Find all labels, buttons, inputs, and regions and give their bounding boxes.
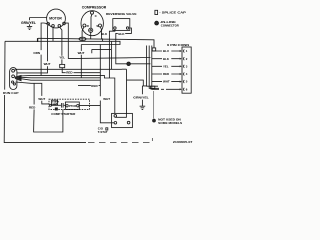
cable bundle (147, 46, 158, 87)
bus line 2 with U-turn to T-STAT (5, 41, 120, 44)
svg-text:GRN/YEL: GRN/YEL (21, 21, 36, 25)
svg-text:C: C (95, 14, 98, 18)
svg-text:S: S (96, 24, 98, 28)
svg-text:2: 2 (186, 57, 188, 61)
capacitor plates (62, 103, 64, 108)
terminal C (91, 11, 94, 14)
bus crossbar (102, 38, 104, 41)
ground (top) (27, 26, 32, 29)
ground (bottom) (140, 106, 146, 109)
pin brackets and numbers (183, 50, 186, 91)
bottom border dashed (88, 138, 152, 143)
in-line square below start cap (55, 108, 57, 110)
svg-text:CONNECTOR: CONNECTOR (161, 23, 180, 27)
svg-text:6: 6 (186, 87, 188, 91)
start cap terminal (50, 104, 52, 106)
left border wire (4, 41, 86, 142)
in-line connector dot (127, 62, 131, 66)
svg-text:MOTOR: MOTOR (49, 17, 62, 21)
terminal S (99, 24, 102, 27)
svg-text:R: R (87, 24, 90, 28)
wire PTCR out (79, 105, 100, 107)
terminal R (83, 24, 86, 27)
wire valve right BLK (116, 28, 132, 45)
svg-text:WHT: WHT (163, 80, 170, 84)
PTCR box (65, 102, 79, 109)
in-line connector oval on bus1 (79, 37, 86, 40)
pin rows (152, 51, 180, 89)
wedge wire L3 (19, 76, 100, 79)
motor terminals (47, 23, 50, 26)
wire RED drop to bottom loop (34, 83, 63, 132)
svg-text:5: 5 (186, 80, 188, 84)
svg-text:6 PIN CONN: 6 PIN CONN (167, 43, 190, 47)
wire stub y49.4 (92, 49, 111, 53)
wire R drop (82, 27, 84, 41)
svg-text:BLK: BLK (163, 57, 170, 61)
svg-text:GRN/YEL: GRN/YEL (133, 96, 149, 100)
wire motor drop 2 / WHT to run cap (17, 25, 48, 73)
wire motor terminal 1 jog / ORN drop (41, 23, 47, 76)
legend in-line connector (155, 21, 159, 25)
svg-text:COMPRESSOR: COMPRESSOR (82, 6, 107, 10)
wire overload drop (90, 32, 92, 39)
svg-text:PTCR: PTCR (69, 104, 76, 108)
wire BLK pair second vertical (111, 42, 113, 70)
wire RED short from YEL splice (62, 68, 100, 73)
svg-text:1: 1 (186, 49, 188, 53)
svg-text:RUN CAP: RUN CAP (3, 91, 19, 95)
svg-text:BLK: BLK (101, 32, 108, 36)
wedge wire L5 WHT to comp starter (16, 82, 50, 104)
svg-text:BLK: BLK (118, 32, 125, 36)
svg-text:RED: RED (91, 84, 98, 88)
svg-text:4: 4 (186, 72, 188, 76)
comp starter dashed box (49, 99, 90, 109)
splice cap YEL (60, 64, 65, 67)
svg-text:BLU: BLU (163, 49, 169, 53)
svg-text:WHT: WHT (44, 62, 51, 66)
wire motor terminal right to W1 (65, 23, 68, 59)
splice cap near C/O (106, 128, 108, 130)
svg-text:ORN: ORN (33, 51, 40, 55)
not used note (153, 119, 156, 122)
C/O T-STAT box (112, 113, 133, 127)
wire vertical to T-STAT right (127, 69, 144, 113)
overload terminal (89, 28, 93, 32)
wedge wire L2 (19, 75, 115, 113)
wire internal C to overload (91, 14, 92, 28)
svg-text:3: 3 (186, 64, 188, 68)
svg-text:YEL: YEL (59, 56, 65, 60)
svg-text:- SPLICE CAP: - SPLICE CAP (159, 11, 186, 15)
svg-text:RED: RED (163, 72, 169, 76)
svg-text:SOME MODELS: SOME MODELS (158, 121, 182, 125)
svg-text:YEL: YEL (163, 64, 169, 68)
wire to cap plates (52, 104, 61, 106)
svg-text:WHT: WHT (78, 51, 85, 55)
junction tick (37, 38, 39, 42)
run cap wire wedge (15, 75, 22, 82)
svg-text:WHT: WHT (103, 97, 110, 101)
svg-text:RED: RED (66, 71, 73, 75)
wire W2 with in-line connector (116, 45, 151, 64)
wire T-STAT feed (100, 45, 114, 123)
wire GRN/YEL top ground drop (30, 18, 48, 27)
wire motor drop 4 / YEL to splice (60, 27, 62, 64)
svg-text:2100605-07: 2100605-07 (173, 140, 193, 144)
pin wire labels (163, 49, 170, 84)
svg-text:COMP STARTER: COMP STARTER (51, 112, 76, 116)
legend splice cap (155, 10, 158, 14)
svg-text:RED: RED (29, 106, 36, 110)
bus line 1 (38, 38, 154, 48)
wedge wire L4 (19, 78, 100, 80)
svg-text:WHT: WHT (38, 97, 45, 101)
wire S drop (100, 27, 101, 39)
motor M1 (47, 9, 66, 28)
splice cap on bus1 end (152, 48, 156, 51)
wire GRN/YEL bottom drop (141, 86, 143, 106)
pin arrowheads (180, 50, 182, 91)
wire long to GRN/YEL ground (78, 85, 147, 87)
start cap box (52, 100, 58, 105)
wire W1 to bundle (68, 58, 150, 59)
svg-text:REVERSING VALVE: REVERSING VALVE (106, 12, 137, 16)
wire H3 run cap top to T-STAT (15, 69, 127, 70)
svg-text:T-STAT: T-STAT (98, 130, 108, 134)
run cap (10, 68, 17, 90)
wire motor drop 3 (52, 27, 54, 41)
wire WHT3 drop (80, 45, 82, 79)
wire valve left BLK (109, 29, 115, 78)
